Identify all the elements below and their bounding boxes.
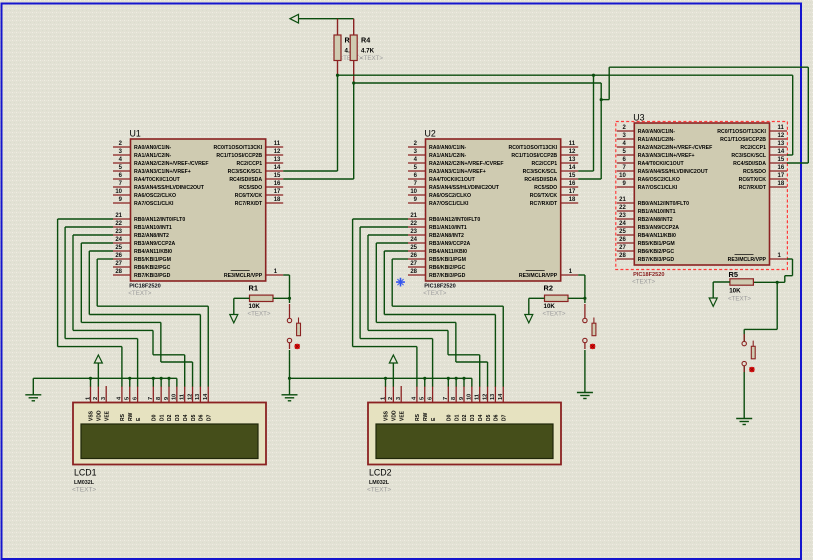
ground left of LCD1 [25,395,41,401]
svg-text:9: 9 [459,397,465,400]
wire SCL drop to U1 RC3 [337,75,339,171]
wire SW3 to ground [743,366,745,419]
power arrow [389,355,397,363]
wire RB4 to LCD D6 [89,250,113,252]
svg-text:27: 27 [619,245,626,251]
svg-text:D3: D3 [175,414,181,421]
svg-text:28: 28 [410,269,417,275]
R4 top pin stub [353,19,355,35]
svg-text:RB1/AN10/INT1: RB1/AN10/INT1 [638,209,676,215]
svg-text:R2: R2 [544,284,553,293]
svg-text:RC5/SDO: RC5/SDO [534,185,557,191]
svg-text:<TEXT>: <TEXT> [360,55,383,62]
pin 18 (RC7/RX/DT) stub [561,202,579,204]
svg-text:16: 16 [778,165,785,171]
svg-text:RA3/AN3/C1IN+/VREF+: RA3/AN3/C1IN+/VREF+ [134,169,191,175]
svg-text:13: 13 [274,157,281,163]
wire button2 to ground [584,350,586,393]
pin 9 (RA7/OSC1/CLKI) stub [408,202,426,204]
svg-text:10K: 10K [729,287,741,294]
wire LCD ground rail [290,377,472,379]
svg-text:RA1/AN1/C2IN-: RA1/AN1/C2IN- [134,153,171,159]
junction [423,377,426,380]
svg-text:RC1/T1OSI/CCP2B: RC1/T1OSI/CCP2B [720,137,766,143]
svg-text:D2: D2 [462,414,468,421]
svg-text:D4: D4 [183,414,189,421]
svg-text:17: 17 [274,189,281,195]
push button SW1 [287,304,300,349]
svg-text:7: 7 [148,397,154,400]
pin 23 (RB2/AN8/INT2) stub [408,234,426,236]
svg-text:5: 5 [420,397,426,400]
svg-text:RC2/CCP1: RC2/CCP1 [740,145,766,151]
svg-text:D7: D7 [206,414,212,421]
svg-text:1: 1 [380,397,386,400]
svg-text:28: 28 [115,269,122,275]
svg-text:28: 28 [619,253,626,259]
svg-text:<TEXT>: <TEXT> [72,487,96,494]
svg-text:RB5/KBI1/PGM: RB5/KBI1/PGM [134,257,171,263]
svg-text:LM032L: LM032L [74,480,95,486]
LCD pin 8 (D1) stub [160,386,162,403]
junction [288,297,291,300]
LCD pin 13 (D6) stub [199,386,201,403]
svg-text:RC7/RX/DT: RC7/RX/DT [235,201,263,207]
pin 14 (RC3/SCK/SCL) stub [266,170,284,172]
svg-text:RB6/KBI2/PGC: RB6/KBI2/PGC [638,249,675,255]
pin 9 (RA7/OSC1/CLKI) stub [113,202,131,204]
pin 22 (RB1/AN10/INT1) stub [113,226,131,228]
pin 28 (RB7/KBI3/PGD) stub [617,258,635,260]
ground arrow terminal R1 [230,315,238,323]
junction [160,377,163,380]
push button SW3 [742,334,755,372]
pin 26 (RB5/KBI1/PGM) stub [617,242,635,244]
svg-text:RA4/T0CKI/C1OUT: RA4/T0CKI/C1OUT [429,177,476,183]
resistor R5 body [730,279,754,285]
svg-text:VDD: VDD [392,410,398,421]
pin 16 (RC5/SDO) stub [561,186,579,188]
svg-text:U2: U2 [425,129,436,139]
svg-text:17: 17 [569,189,576,195]
terminal arrow (input terminal, top-left) [290,14,299,23]
svg-text:VSS: VSS [89,410,95,421]
svg-text:RC4/SDI/SDA: RC4/SDI/SDA [229,177,262,183]
junction [167,377,170,380]
pin 5 (RA3/AN3/C1IN+/VREF+) stub [113,170,131,172]
LCD pin 14 (D7) stub [502,386,504,403]
svg-text:RA3/AN3/C1IN+/VREF+: RA3/AN3/C1IN+/VREF+ [429,169,486,175]
svg-text:R5: R5 [729,270,738,279]
pin 21 (RB0/AN12/INT0/FLT0) stub [408,218,426,220]
pin 1 (RE3/MCLR/VPP) stub [561,274,579,276]
svg-text:18: 18 [274,197,281,203]
LCD pin 10 (D3) stub [176,386,178,403]
pin 21 (RB0/AN12/INT0/FLT0) stub [617,202,635,204]
LCD pin 12 (D5) stub [192,386,194,403]
wire button to ground [289,350,291,395]
LCD pin 5 (RW) stub [129,386,131,403]
svg-text:14: 14 [569,165,576,171]
origin marker (blue cross) [396,278,405,287]
pin 21 (RB0/AN12/INT0/FLT0) stub [113,218,131,220]
LCD pin 2 (VDD) stub [392,386,394,403]
svg-text:PIC18F2520: PIC18F2520 [424,284,455,290]
svg-text:RS: RS [120,413,126,421]
pin 16 (RC5/SDO) stub [266,186,284,188]
svg-text:LM032L: LM032L [369,480,390,486]
svg-text:D2: D2 [167,414,173,421]
wire U3 MCLR to R5 (double jog) [787,258,793,260]
svg-text:9: 9 [164,397,170,400]
svg-text:10: 10 [172,394,178,400]
pin 26 (RB5/KBI1/PGM) stub [113,258,131,260]
pin 7 (RA5/AN4/SS/HLVDIN/C2OUT) stub [408,186,426,188]
svg-text:RW: RW [423,412,429,421]
pin 1 (RE3/MCLR/VPP) stub [266,274,284,276]
svg-text:VDD: VDD [97,410,103,421]
LCD pin 5 (RW) stub [424,386,426,403]
LCD pin 11 (D4) stub [479,386,481,403]
svg-text:RA5/AN4/SS/HLVDIN/C2OUT: RA5/AN4/SS/HLVDIN/C2OUT [638,169,709,175]
LCD pin 6 (E) stub [137,386,139,403]
wire R1 left to ground arrow [234,297,250,299]
LCD display LCD2 LM032L [367,386,561,494]
svg-text:PIC18F2520: PIC18F2520 [633,272,664,278]
pin 16 (RC5/SDO) stub [770,170,788,172]
svg-text:VSS: VSS [384,410,390,421]
svg-text:8: 8 [156,397,162,400]
svg-text:RC6/TX/CK: RC6/TX/CK [739,177,767,183]
svg-text:RA7/OSC1/CLKI: RA7/OSC1/CLKI [638,185,678,191]
svg-text:RA1/AN1/C2IN-: RA1/AN1/C2IN- [638,137,675,143]
svg-text:16: 16 [569,181,576,187]
pin 24 (RB3/AN9/CCP2A) stub [113,242,131,244]
svg-text:24: 24 [410,237,417,243]
wire SDA to U3 RC4 [807,67,809,163]
resistor R1 body [250,295,274,301]
svg-text:RC6/TX/CK: RC6/TX/CK [530,193,558,199]
LCD pin 4 (RS) stub [416,386,418,403]
svg-text:12: 12 [482,394,488,400]
svg-text:24: 24 [115,237,122,243]
svg-text:D5: D5 [486,414,492,421]
R4 bottom pin stub [353,61,355,84]
LCD pin 7 (D0) stub [447,386,449,403]
LCD pin 9 (D2) stub [463,386,465,403]
pin 2 (RA0/AN0/C1IN-) stub [408,146,426,148]
LCD pin 3 (VEE) stub [400,386,402,403]
wire LCD ground rail [33,377,177,379]
pin 2 (RA0/AN0/C1IN-) stub [617,130,635,132]
power arrow [94,355,102,363]
svg-text:RB1/AN10/INT1: RB1/AN10/INT1 [429,225,467,231]
svg-text:RC3/SCK/SCL: RC3/SCK/SCL [228,169,263,175]
wire R5 net to button SW3 [776,282,778,329]
svg-text:21: 21 [619,197,626,203]
svg-text:23: 23 [619,213,626,219]
pin 17 (RC6/TX/CK) stub [561,194,579,196]
wire RB2 to LCD D4 [368,234,408,236]
svg-text:RC1/T1OSI/CCP2B: RC1/T1OSI/CCP2B [511,153,557,159]
pin 28 (RB7/KBI3/PGD) stub [113,274,131,276]
pin 9 (RA7/OSC1/CLKI) stub [617,186,635,188]
pin 15 (RC4/SDI/SDA) stub [266,178,284,180]
resistor R4 4.7K [350,35,357,61]
pin 10 (RA6/OSC2/CLKO) stub [113,194,131,196]
pin 22 (RB1/AN10/INT1) stub [617,210,635,212]
svg-text:15: 15 [778,157,785,163]
wire RB3 to LCD D5 [81,242,113,244]
svg-text:RB1/AN10/INT1: RB1/AN10/INT1 [134,225,172,231]
LCD pin 14 (D7) stub [207,386,209,403]
svg-text:10: 10 [410,189,417,195]
pin 27 (RB6/KBI2/PGC) stub [408,266,426,268]
wire LCD1 rail to ground [32,378,34,395]
svg-text:R4: R4 [361,36,370,45]
LCD pin 9 (D2) stub [168,386,170,403]
junction [455,377,458,380]
svg-text:RW: RW [128,412,134,421]
svg-text:8: 8 [451,397,457,400]
pin 5 (RA3/AN3/C1IN+/VREF+) stub [617,154,635,156]
svg-text:RC5/SDO: RC5/SDO [743,169,766,175]
svg-text:14: 14 [778,149,785,155]
pin 7 (RA5/AN4/SS/HLVDIN/C2OUT) stub [113,186,131,188]
svg-text:3: 3 [396,397,402,400]
pin 22 (RB1/AN10/INT1) stub [408,226,426,228]
R3 bottom pin stub [337,61,339,76]
svg-text:RA6/OSC2/CLKO: RA6/OSC2/CLKO [638,177,680,183]
pin 13 (RC2/CCP1) stub [770,146,788,148]
junction [600,98,603,101]
svg-text:27: 27 [410,261,417,267]
LCD pin 10 (D3) stub [471,386,473,403]
pin 13 (RC2/CCP1) stub [561,162,579,164]
svg-text:21: 21 [410,213,417,219]
svg-text:24: 24 [619,221,626,227]
svg-text:27: 27 [115,261,122,267]
pin 18 (RC7/RX/DT) stub [266,202,284,204]
svg-text:RA4/T0CKI/C1OUT: RA4/T0CKI/C1OUT [638,161,685,167]
svg-text:13: 13 [195,394,201,400]
LCD pin 6 (E) stub [432,386,434,403]
svg-text:<TEXT>: <TEXT> [632,279,655,286]
svg-text:D6: D6 [494,414,500,421]
svg-text:23: 23 [115,229,122,235]
ground under SW2 [577,393,593,399]
pin 28 (RB7/KBI3/PGD) stub [408,274,426,276]
svg-text:RB2/AN8/INT2: RB2/AN8/INT2 [134,233,169,239]
svg-text:RA7/OSC1/CLKI: RA7/OSC1/CLKI [429,201,469,207]
svg-text:RC1/T1OSI/CCP2B: RC1/T1OSI/CCP2B [216,153,262,159]
junction [336,74,339,77]
wire RB0 to LCD RS [58,218,113,220]
svg-text:RA0/AN0/C1IN-: RA0/AN0/C1IN- [638,129,675,135]
svg-text:<TEXT>: <TEXT> [423,290,446,297]
svg-text:<TEXT>: <TEXT> [728,295,751,302]
svg-text:RC6/TX/CK: RC6/TX/CK [235,193,263,199]
LCD pin 8 (D1) stub [455,386,457,403]
pin 27 (RB6/KBI2/PGC) stub [113,266,131,268]
svg-text:RA5/AN4/SS/HLVDIN/C2OUT: RA5/AN4/SS/HLVDIN/C2OUT [429,185,500,191]
svg-text:17: 17 [778,173,785,179]
svg-text:D1: D1 [454,414,460,421]
pin 12 (RC1/T1OSI/CCP2B) stub [266,154,284,156]
svg-text:1: 1 [85,397,91,400]
pin 23 (RB2/AN8/INT2) stub [113,234,131,236]
pin 6 (RA4/T0CKI/C1OUT) stub [617,162,635,164]
pin 25 (RB4/AN11/KBI0) stub [113,250,131,252]
pin 25 (RB4/AN11/KBI0) stub [408,250,426,252]
wire R1 right to MCLR net [273,297,290,299]
pin 13 (RC2/CCP1) stub [266,162,284,164]
svg-text:RB3/AN9/CCP2A: RB3/AN9/CCP2A [134,241,175,247]
svg-text:RA6/OSC2/CLKO: RA6/OSC2/CLKO [429,193,471,199]
pin 18 (RC7/RX/DT) stub [770,186,788,188]
LCD pin 1 (VSS) stub [385,386,387,403]
LCD pin 2 (VDD) stub [97,386,99,403]
svg-text:11: 11 [180,394,186,400]
pin 3 (RA1/AN1/C2IN-) stub [617,138,635,140]
wire SDA bus [354,82,602,84]
svg-text:RB6/KBI2/PGC: RB6/KBI2/PGC [134,265,171,271]
svg-text:11: 11 [569,141,576,147]
svg-text:PIC18F2520: PIC18F2520 [129,284,160,290]
svg-text:RC0/T1OSO/T13CKI: RC0/T1OSO/T13CKI [717,129,766,135]
svg-text:RB3/AN9/CCP2A: RB3/AN9/CCP2A [638,225,679,231]
svg-text:12: 12 [778,133,785,139]
svg-text:11: 11 [778,125,785,131]
svg-text:RE3/MCLR/VPP: RE3/MCLR/VPP [519,273,558,279]
pin 10 (RA6/OSC2/CLKO) stub [617,178,635,180]
svg-text:D6: D6 [199,414,205,421]
svg-text:10: 10 [115,189,122,195]
svg-text:10K: 10K [544,303,556,310]
pin 12 (RC1/T1OSI/CCP2B) stub [770,138,788,140]
pin 25 (RB4/AN11/KBI0) stub [617,234,635,236]
svg-text:RC3/SCK/SCL: RC3/SCK/SCL [731,153,766,159]
svg-text:14: 14 [274,165,281,171]
svg-text:RA3/AN3/C1IN+/VREF+: RA3/AN3/C1IN+/VREF+ [638,153,695,159]
R3 top pin stub [337,19,339,35]
svg-text:RB4/AN11/KBI0: RB4/AN11/KBI0 [429,249,467,255]
wire terminal to resistor tops [299,18,354,20]
svg-text:12: 12 [187,394,193,400]
svg-text:RC0/T1OSO/T13CKI: RC0/T1OSO/T13CKI [213,145,262,151]
wire R2 left to ground arrow [529,297,545,299]
wire R5 left to ground arrow [713,281,730,283]
svg-text:RB7/KBI3/PGD: RB7/KBI3/PGD [429,273,466,279]
svg-text:6: 6 [427,397,433,400]
svg-text:13: 13 [569,157,576,163]
svg-text:D4: D4 [478,414,484,421]
svg-text:VEE: VEE [399,410,405,421]
svg-text:RA5/AN4/SS/HLVDIN/C2OUT: RA5/AN4/SS/HLVDIN/C2OUT [134,185,205,191]
svg-text:10: 10 [619,173,626,179]
svg-text:LCD2: LCD2 [369,468,392,478]
svg-text:R1: R1 [249,284,258,293]
svg-text:22: 22 [619,205,626,211]
wire U1 MCLR to button [283,274,289,276]
wire RB2 to LCD D4 [73,234,113,236]
svg-text:18: 18 [778,181,785,187]
LCD pin 4 (RS) stub [121,386,123,403]
svg-text:RC7/RX/DT: RC7/RX/DT [739,185,767,191]
wire RB3 to LCD D5 [376,242,408,244]
svg-text:D1: D1 [159,414,165,421]
ground under SW3 [736,419,752,425]
svg-text:14: 14 [203,393,209,400]
pin 24 (RB3/AN9/CCP2A) stub [617,226,635,228]
svg-text:RC2/CCP1: RC2/CCP1 [532,161,558,167]
LCD pin 3 (VEE) stub [105,386,107,403]
svg-text:RA2/AN2/C2IN+/VREF-/CVREF: RA2/AN2/C2IN+/VREF-/CVREF [134,161,209,167]
svg-text:RB0/AN12/INT0/FLT0: RB0/AN12/INT0/FLT0 [638,201,689,207]
resistor R3 4.7K [334,35,341,61]
svg-text:2: 2 [93,397,99,400]
wire SDA drop to U2 RC4 + branch [600,83,602,179]
LCD pin 1 (VSS) stub [90,386,92,403]
svg-text:14: 14 [498,393,504,400]
pin 6 (RA4/T0CKI/C1OUT) stub [408,178,426,180]
pin 7 (RA5/AN4/SS/HLVDIN/C2OUT) stub [617,170,635,172]
svg-text:12: 12 [569,149,576,155]
svg-text:RC4/SDI/SDA: RC4/SDI/SDA [524,177,557,183]
svg-text:7: 7 [443,397,449,400]
pin 14 (RC3/SCK/SCL) stub [561,170,579,172]
junction [583,297,586,300]
wire RB5 to LCD D7 [392,258,408,260]
junction [288,377,291,380]
wire SCL bus [338,74,793,76]
pin 24 (RB3/AN9/CCP2A) stub [408,242,426,244]
svg-text:RA2/AN2/C2IN+/VREF-/CVREF: RA2/AN2/C2IN+/VREF-/CVREF [429,161,504,167]
push button SW2 [583,304,596,349]
svg-text:16: 16 [274,181,281,187]
pin 1 (RE3/MCLR/VPP) stub [770,258,788,260]
junction [776,281,779,284]
pin 4 (RA2/AN2/C2IN+/VREF-/CVREF) stub [408,162,426,164]
svg-text:D0: D0 [447,414,453,421]
svg-text:RC7/RX/DT: RC7/RX/DT [530,201,558,207]
wire SCL drop to U2 RC3 [593,75,595,171]
svg-text:RC5/SDO: RC5/SDO [239,185,262,191]
ground arrow terminal R5 [709,298,717,306]
svg-text:RC3/SCK/SCL: RC3/SCK/SCL [523,169,558,175]
svg-text:RE3/MCLR/VPP: RE3/MCLR/VPP [728,257,767,263]
svg-text:RA0/AN0/C1IN-: RA0/AN0/C1IN- [429,145,466,151]
svg-text:26: 26 [410,253,417,259]
svg-text:25: 25 [410,245,417,251]
pin 10 (RA6/OSC2/CLKO) stub [408,194,426,196]
svg-text:RA1/AN1/C2IN-: RA1/AN1/C2IN- [429,153,466,159]
pin 11 (RC0/T1OSO/T13CKI) stub [266,146,284,148]
svg-text:U1: U1 [130,129,141,139]
svg-text:RC0/T1OSO/T13CKI: RC0/T1OSO/T13CKI [508,145,557,151]
wire RB5 to LCD D7 [97,258,113,260]
svg-text:6: 6 [132,397,138,400]
svg-text:12: 12 [274,149,281,155]
svg-text:<TEXT>: <TEXT> [248,311,271,318]
svg-text:RB2/AN8/INT2: RB2/AN8/INT2 [429,233,464,239]
junction [89,377,92,380]
wire RB4 to LCD D6 [384,250,408,252]
svg-text:RB7/KBI3/PGD: RB7/KBI3/PGD [134,273,171,279]
svg-text:RB2/AN8/INT2: RB2/AN8/INT2 [638,217,673,223]
svg-text:RA0/AN0/C1IN-: RA0/AN0/C1IN- [134,145,171,151]
pin 17 (RC6/TX/CK) stub [770,178,788,180]
